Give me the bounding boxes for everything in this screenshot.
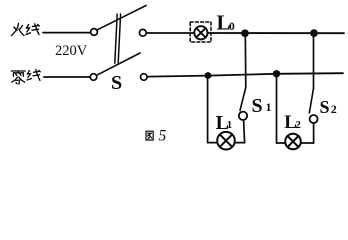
terminal circle: switch S bottom-left: [90, 74, 97, 81]
label 零线 (neutral wire): [11, 70, 40, 85]
lamp L1: [217, 132, 235, 150]
wire: neutral line from 零线 to switch: [44, 76, 90, 78]
node J1 (top, feeds S1): [241, 29, 249, 37]
svg-text:2: 2: [331, 102, 337, 116]
node J4 (neutral, L2 return): [273, 70, 280, 77]
wire: live line from switch to lamp L0: [146, 32, 194, 34]
lamp L2: [285, 134, 301, 150]
label 火线 (live wire): [12, 24, 40, 36]
switch S2 terminal circle: [310, 115, 318, 123]
svg-text:0: 0: [229, 21, 235, 33]
switch S1 terminal circle: [239, 112, 247, 120]
label 图5 (figure caption): [146, 131, 153, 140]
wire: drop from J1 to switch S1: [244, 33, 247, 87]
svg-text:220V: 220V: [55, 43, 88, 59]
terminal circle: switch S top-right: [139, 29, 146, 36]
svg-text:S: S: [252, 95, 263, 117]
wire: live line from 火线 to switch: [43, 32, 91, 34]
terminal circle: switch S top-left: [91, 29, 98, 36]
wire: live line from L0 to right end: [208, 32, 344, 34]
wire: L2 return to J4: [277, 74, 286, 143]
wire: drop from J2 to switch S2: [313, 33, 315, 89]
switch S top blade: [97, 6, 146, 30]
svg-text:5: 5: [159, 128, 167, 145]
terminal circle: switch S bottom-right: [141, 74, 148, 81]
dashed box around L0: [190, 22, 211, 42]
wire: neutral line to right end: [147, 73, 343, 76]
wire: S1 to lamp L1: [235, 120, 245, 143]
switch S2 blade: [309, 90, 313, 114]
svg-text:2: 2: [295, 119, 301, 131]
lamp L0: [194, 26, 207, 39]
wire: L1 return to J3: [208, 76, 217, 143]
node J3 (neutral, L1 return): [205, 72, 212, 79]
wire: S2 to lamp L2: [301, 123, 314, 143]
svg-text:S: S: [111, 72, 122, 94]
svg-text:1: 1: [227, 119, 233, 131]
node J2 (top, feeds S2): [310, 29, 318, 37]
switch S1 blade: [240, 88, 246, 111]
switch S linkage (double line): [115, 14, 117, 63]
switch S bottom blade: [97, 53, 140, 75]
svg-text:S: S: [320, 97, 330, 117]
svg-text:1: 1: [266, 100, 272, 114]
